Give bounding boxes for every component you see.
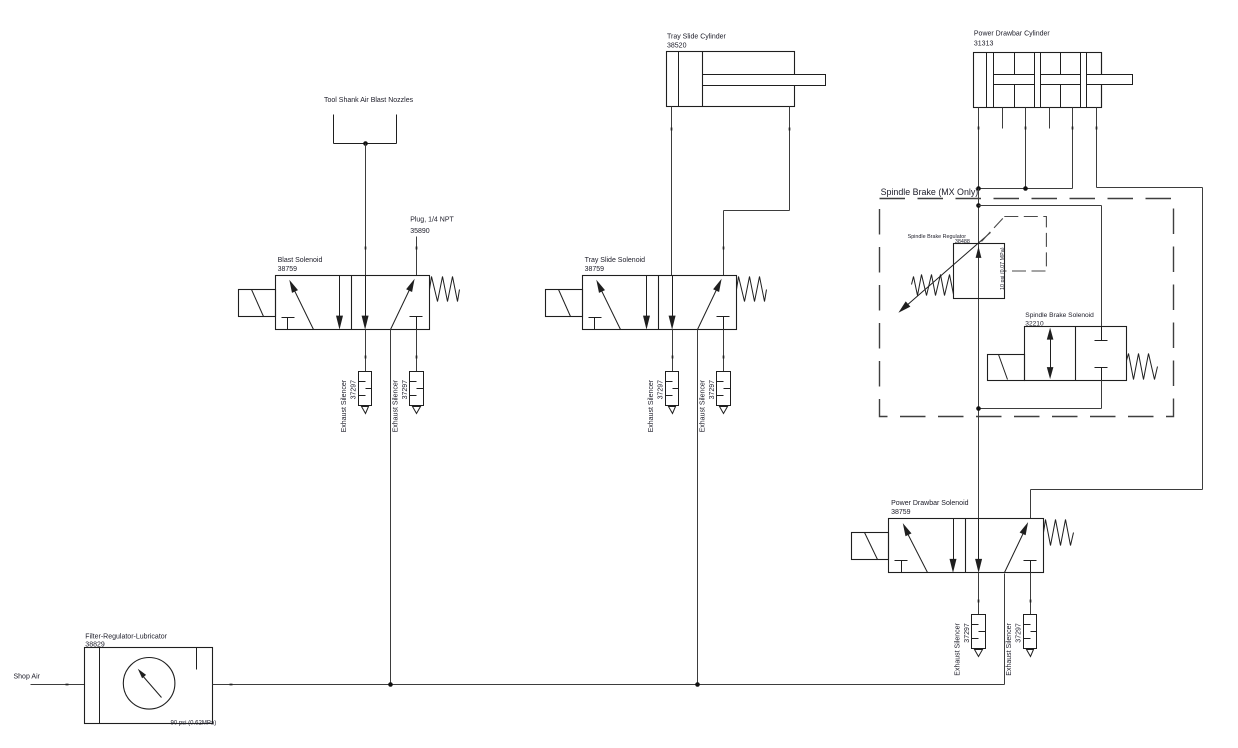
spindle brake solenoid 32210 body — [1025, 327, 1127, 381]
label Spindle Brake Solenoid 32210 — [1025, 312, 1094, 328]
return spring of 38759 — [1044, 520, 1074, 546]
svg-text:37297: 37297 — [350, 380, 357, 400]
label Exhaust Silencer 37297 (38759-A) — [341, 379, 358, 432]
svg-text:Exhaust Silencer: Exhaust Silencer — [954, 623, 961, 676]
valve 38759 left position flow arrow diagonal — [903, 523, 928, 572]
valve 38759 right position down arrow — [362, 276, 369, 330]
wire 38759 exhaust port B to silencer — [1030, 573, 1032, 615]
svg-text:38759: 38759 — [585, 266, 605, 273]
exhaust silencer 38759-B 37297 — [1024, 615, 1037, 657]
valve 38759 right position flow arrow diagonal — [391, 279, 415, 330]
power drawbar cylinder piston rod — [994, 75, 1133, 85]
valve 38759 right position flow arrow diagonal — [1005, 522, 1029, 572]
tray slide cylinder 38520 body — [667, 52, 795, 107]
valve 38759 left position blocked port T — [895, 561, 908, 573]
svg-text:37297: 37297 — [709, 380, 716, 400]
svg-text:31313: 31313 — [974, 41, 994, 48]
wire tray cylinder cap-end port to tray valve — [671, 107, 673, 276]
svg-text:Exhaust Silencer: Exhaust Silencer — [1006, 623, 1013, 676]
wire tray valve supply to main air bus — [697, 330, 699, 685]
solenoid valve Blast Solenoid 38759 body — [276, 276, 430, 330]
solenoid actuator box of 32210 — [988, 355, 1025, 381]
dashed pilot line regulator to pilot box — [982, 217, 1005, 242]
power drawbar cylinder piston plate 2 — [1081, 53, 1087, 108]
svg-text:10 psi (0.07 MPa): 10 psi (0.07 MPa) — [1000, 247, 1006, 290]
svg-text:Exhaust Silencer: Exhaust Silencer — [341, 379, 348, 432]
wire blast valve supply to main air bus — [390, 330, 392, 685]
svg-text:Exhaust Silencer: Exhaust Silencer — [648, 379, 655, 432]
svg-text:Tray Slide Cylinder: Tray Slide Cylinder — [667, 34, 727, 41]
power drawbar cylinder 31313 body — [974, 53, 1102, 108]
spindle brake (MX only) dashed enclosure — [880, 199, 1174, 417]
regulator spring — [912, 275, 954, 296]
exhaust silencer 38759-A 37297 — [972, 615, 986, 657]
tool shank nozzle manifold bracket — [334, 115, 397, 144]
svg-text:Exhaust Silencer: Exhaust Silencer — [699, 379, 706, 432]
svg-text:38520: 38520 — [667, 43, 687, 50]
junction nozzle manifold — [363, 141, 368, 146]
exhaust silencer 38759-A 37297 — [666, 372, 679, 414]
junction bus to tray valve — [695, 682, 700, 687]
svg-text:38759: 38759 — [278, 266, 298, 273]
svg-text:Power Drawbar Cylinder: Power Drawbar Cylinder — [974, 30, 1051, 37]
brake valve right position top blocked port T — [1095, 327, 1108, 341]
junction brake return — [976, 406, 981, 411]
junction drawbar manifold 2 — [1023, 186, 1028, 191]
svg-text:Tool Shank Air Blast Nozzles: Tool Shank Air Blast Nozzles — [324, 97, 414, 104]
valve 38759 left position down arrow — [950, 519, 957, 573]
port stub drawbar cylinder 2 — [1049, 108, 1051, 129]
label Exhaust Silencer 37297 (38759-B) — [392, 379, 409, 432]
label Tray Slide Solenoid 38759 — [585, 257, 646, 273]
junction regulator inlet — [976, 203, 981, 208]
wire 38759 exhaust port B to silencer — [723, 330, 725, 372]
label Blast Solenoid 38759 — [278, 257, 323, 273]
svg-text:37297: 37297 — [964, 623, 971, 643]
valve 38759 right position flow arrow diagonal — [698, 279, 722, 330]
label Exhaust Silencer 37297 (38759-B) — [699, 379, 716, 432]
wire 38759 exhaust port A to silencer — [672, 330, 674, 372]
svg-text:37297: 37297 — [657, 380, 664, 400]
label Exhaust Silencer 37297 (38759-A) — [648, 379, 665, 432]
wire drawbar cylinder port 1 down (main supply to spindle brake) — [978, 108, 980, 189]
solenoid valve Tray Slide Solenoid 38759 body — [583, 276, 737, 330]
power drawbar cylinder piston plate 1 — [1035, 53, 1041, 108]
wire 38759 exhaust port A to silencer — [365, 330, 367, 372]
wire drawbar cylinder port 3 down — [979, 108, 1073, 189]
valve 38759 left position blocked port T — [589, 318, 602, 330]
valve 38759 left position flow arrow diagonal — [596, 280, 620, 330]
label 90 psi (0.62MPa) — [171, 720, 217, 726]
wire tray cylinder rod-end port to tray valve port B — [724, 107, 790, 276]
valve 38759 right position down arrow — [975, 519, 982, 573]
valve 38759 right position blocked port T — [1024, 561, 1037, 573]
brake valve left position double arrow — [1047, 328, 1054, 380]
junction drawbar manifold 1 — [976, 186, 981, 191]
brake valve right position bottom blocked port T — [1095, 368, 1108, 381]
wire nozzles to blast solenoid valve — [365, 144, 367, 276]
valve 38759 left position down arrow — [643, 276, 650, 330]
label Plug, 1/4 NPT 35890 — [410, 217, 454, 235]
svg-text:37297: 37297 — [402, 380, 409, 400]
svg-text:Plug, 1/4 NPT: Plug, 1/4 NPT — [410, 217, 454, 224]
svg-text:37297: 37297 — [1015, 623, 1022, 643]
FRL pressure gauge — [123, 658, 175, 710]
pilot sensing dashed box — [1004, 217, 1046, 272]
wire shop air inlet — [31, 684, 85, 686]
svg-text:Exhaust Silencer: Exhaust Silencer — [392, 379, 399, 432]
valve 38759 left position blocked port T — [282, 318, 295, 330]
tray slide cylinder piston rod — [703, 75, 826, 86]
label Power Drawbar Solenoid 38759 — [891, 500, 969, 516]
node Tool Shank Air Blast Nozzles label — [324, 97, 414, 104]
svg-text:90 psi (0.62MPa): 90 psi (0.62MPa) — [171, 720, 217, 726]
wire main bus up to drawbar valve supply port — [1004, 574, 1006, 685]
label Shop Air — [14, 674, 41, 681]
label Spindle Brake Regulator 38488 — [908, 234, 970, 245]
svg-text:38759: 38759 — [891, 509, 911, 516]
label Spindle Brake (MX Only) — [881, 187, 979, 197]
tray slide cylinder piston — [702, 52, 704, 107]
wire main air bus — [213, 684, 1005, 686]
svg-text:Shop Air: Shop Air — [14, 674, 41, 681]
valve 38759 left position flow arrow diagonal — [289, 280, 313, 330]
valve 38759 left position down arrow — [336, 276, 343, 330]
svg-text:Filter-Regulator-Lubricator: Filter-Regulator-Lubricator — [85, 634, 167, 641]
svg-text:Tray Slide Solenoid: Tray Slide Solenoid — [585, 257, 646, 264]
filter-regulator-lubricator 38829 body — [85, 648, 213, 724]
svg-text:Power Drawbar Solenoid: Power Drawbar Solenoid — [891, 500, 969, 507]
power drawbar cylinder right cap line — [1101, 53, 1103, 108]
spindle brake regulator 38488 body — [954, 244, 1005, 299]
port stub drawbar cylinder 1 — [1002, 108, 1004, 129]
wire 38759 exhaust port B to silencer — [416, 330, 418, 372]
wire drawbar cylinder port 2 down — [1025, 108, 1027, 189]
label Exhaust Silencer 37297 (38759-A) — [954, 623, 971, 676]
label Power Drawbar Cylinder 31313 — [974, 30, 1051, 47]
exhaust silencer 38759-B 37297 — [717, 372, 731, 414]
valve 38759 right position down arrow — [669, 276, 676, 330]
wire 38759 exhaust port A to silencer — [978, 573, 980, 615]
label Filter-Regulator-Lubricator 38829 — [85, 634, 167, 649]
solenoid valve Power Drawbar Solenoid 38759 body — [889, 519, 1044, 573]
valve 38759 right position blocked port T — [717, 317, 730, 330]
wire brake valve outlet to junction — [979, 381, 1102, 409]
svg-text:35890: 35890 — [410, 228, 430, 235]
return spring of 32210 — [1127, 354, 1158, 380]
wire plug to blast valve port B — [416, 237, 418, 276]
label Exhaust Silencer 37297 (38759-B) — [1006, 623, 1023, 676]
solenoid actuator box of 38759 — [852, 533, 889, 560]
exhaust silencer 38759-B 37297 — [410, 372, 424, 414]
wire main supply vertical through spindle brake — [978, 189, 980, 519]
return spring of 38759 — [430, 277, 460, 302]
label Tray Slide Cylinder 38520 — [667, 34, 727, 50]
svg-text:Spindle Brake Solenoid: Spindle Brake Solenoid — [1025, 312, 1094, 319]
valve 38759 right position blocked port T — [410, 317, 423, 330]
return spring of 38759 — [737, 277, 767, 302]
label 10 psi (0.07 MPa) setting — [1000, 247, 1006, 290]
exhaust silencer 38759-A 37297 — [359, 372, 372, 414]
wire to spindle brake solenoid inlet — [979, 206, 1102, 327]
svg-text:Blast Solenoid: Blast Solenoid — [278, 257, 323, 264]
svg-text:Spindle Brake (MX Only): Spindle Brake (MX Only) — [881, 187, 979, 197]
regulator flow up-arrowhead — [976, 246, 982, 258]
solenoid actuator box of 38759 — [546, 290, 583, 317]
power drawbar cylinder left cap lines — [987, 53, 994, 108]
solenoid actuator box of 38759 — [239, 290, 276, 317]
junction bus to blast valve — [388, 682, 393, 687]
wire drawbar cylinder rod-end port to drawbar valve port B — [1031, 108, 1203, 519]
regulator adjustment arrow — [898, 233, 990, 313]
